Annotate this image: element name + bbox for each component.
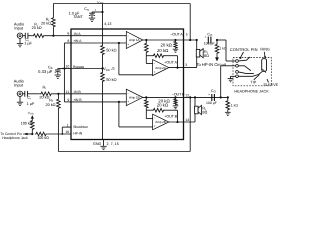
- node HP-IN junction: [61, 133, 63, 135]
- resistor 50k upper: [101, 45, 105, 55]
- svg-text:100 kΩ: 100 kΩ: [21, 122, 33, 126]
- jack arm 1: [238, 57, 249, 61]
- svg-text:+OUT A: +OUT A: [164, 61, 177, 65]
- svg-text:DD: DD: [30, 113, 34, 116]
- ground below Cs: [89, 18, 95, 21]
- pin 5 -OUTA: [186, 32, 188, 36]
- node 20k tap B: [145, 96, 147, 98]
- capacitor Co A: [208, 37, 211, 44]
- node feedback B at -OUTB: [189, 96, 191, 98]
- wire -INA to amp1A: [71, 35, 126, 37]
- label Ri A: [34, 23, 38, 28]
- wire divider top: [102, 29, 104, 45]
- label Ri B value: [39, 96, 49, 100]
- label Rf B value: [46, 103, 56, 107]
- svg-text:CO: CO: [207, 32, 213, 37]
- svg-text:TANT: TANT: [73, 15, 83, 19]
- node bypass rail at bypass pin: [63, 67, 65, 69]
- svg-text:1 µF: 1 µF: [27, 102, 35, 106]
- svg-text:8Ω: 8Ω: [204, 54, 209, 58]
- wire 20k B node to -in: [146, 110, 152, 118]
- label RL B: [202, 107, 207, 112]
- jack contact 1 (control): [236, 60, 239, 63]
- node divider mid at bypass: [101, 67, 103, 69]
- svg-text:+: +: [208, 92, 210, 96]
- svg-text:20 kΩ: 20 kΩ: [41, 21, 51, 25]
- svg-text:4,13: 4,13: [104, 22, 111, 26]
- svg-text:5: 5: [186, 32, 188, 36]
- pin 12 -OUTB: [185, 94, 189, 98]
- label Cs value: [69, 11, 81, 15]
- wire speaker B bottom: [194, 113, 196, 122]
- capacitor Ci B: [25, 91, 28, 97]
- svg-text:50 kΩ: 50 kΩ: [106, 48, 116, 53]
- pin 8 +IN A: [67, 39, 82, 43]
- label 20k A 2: [157, 48, 169, 53]
- svg-text:Amp 1B: Amp 1B: [129, 96, 139, 100]
- label 100k pullup: [21, 122, 33, 126]
- label CB: [48, 65, 53, 70]
- audio input jack A: [17, 33, 23, 38]
- node +INB jog: [118, 101, 120, 103]
- svg-text:14: 14: [185, 118, 189, 122]
- ground at input jack B: [17, 96, 23, 105]
- svg-text:1: 1: [67, 123, 69, 127]
- label Cs TANT: [73, 15, 83, 19]
- svg-text:100 µF: 100 µF: [204, 42, 215, 46]
- wire jack A to cap: [23, 35, 26, 37]
- svg-text:+OUT B: +OUT B: [164, 114, 177, 118]
- wire pullup to HP-IN row: [31, 131, 33, 135]
- pin 11 -IN B: [66, 90, 82, 94]
- capacitor Co B: [212, 94, 215, 101]
- resistor 20k B vertical: [145, 97, 149, 110]
- svg-text:Amp 2B: Amp 2B: [155, 120, 165, 124]
- wire 100k to HP-IN pin: [47, 133, 71, 135]
- svg-text:+: +: [154, 70, 156, 74]
- label Rf A value: [41, 21, 51, 25]
- svg-text:1 kΩ: 1 kΩ: [231, 103, 239, 107]
- label 50k lower: [106, 77, 116, 82]
- label +OUT A: [164, 61, 177, 65]
- jack arm 3: [238, 72, 253, 74]
- label GND pins 2 7 15: [107, 142, 119, 146]
- node feedback A drop: [176, 67, 178, 69]
- label -OUT A: [170, 33, 183, 37]
- svg-text:2, 7, 15: 2, 7, 15: [107, 142, 119, 146]
- resistor Rf channel A 20k: [52, 4, 56, 36]
- label Rf B: [49, 98, 53, 103]
- wire VDD to Cs: [92, 11, 103, 13]
- wire bypass pin to CB: [58, 68, 71, 70]
- op-amp Amp2A: [153, 60, 169, 76]
- power VDD arrow (shutdown pullup): [28, 111, 34, 120]
- wire speaker A top: [196, 40, 198, 49]
- wire 20k A node to -in: [146, 56, 152, 64]
- speaker RL B: [195, 105, 202, 114]
- svg-text:+: +: [94, 8, 96, 12]
- label 100k series: [37, 136, 49, 140]
- jack arm 4: [238, 71, 262, 76]
- speaker RL A: [196, 49, 203, 58]
- svg-text:DD: DD: [100, 2, 104, 5]
- svg-text:Ci: Ci: [27, 96, 31, 101]
- svg-text:20 kΩ: 20 kΩ: [157, 102, 169, 107]
- ground below 1k B: [225, 110, 231, 115]
- capacitor Cs: [89, 12, 95, 18]
- label Ci A: [25, 38, 29, 43]
- wire +OUTB: [169, 121, 195, 123]
- headphone plug symbol: [262, 59, 267, 73]
- pin 16 HP-IN: [65, 130, 82, 135]
- wire 20k B h to drop: [166, 110, 178, 122]
- svg-text:−OUT A: −OUT A: [170, 33, 183, 37]
- svg-text:20 kΩ: 20 kΩ: [39, 96, 49, 100]
- arrow to control pin: [24, 133, 32, 136]
- label To HP-IN Circuit: [196, 62, 226, 67]
- node Rf/Ri junction A: [52, 35, 54, 37]
- label Audio Input B: [14, 79, 25, 88]
- wire divider bottom: [102, 82, 104, 140]
- wire +OUTA: [169, 67, 197, 69]
- arrow sleeve: [267, 79, 269, 82]
- label 50k upper: [106, 48, 116, 53]
- wire -OUTA: [143, 39, 197, 41]
- label 8ohm A: [204, 54, 209, 58]
- resistor 20k A vertical: [145, 40, 149, 56]
- node shutdown junction: [31, 133, 33, 135]
- svg-text:−OUT B: −OUT B: [172, 93, 185, 97]
- node -OUTA gnd-res tap: [174, 39, 176, 41]
- label Ci B: [27, 96, 31, 101]
- wire speaker A bottom: [196, 57, 198, 68]
- jack contact 2 (ring): [236, 64, 239, 67]
- svg-text:1 µF: 1 µF: [24, 42, 32, 46]
- label Co A: [207, 32, 213, 37]
- svg-text:To HP-IN Circuit: To HP-IN Circuit: [196, 62, 226, 67]
- wire jack B to cap: [23, 93, 25, 95]
- resistor 50k lower: [101, 72, 105, 82]
- svg-text:9: 9: [67, 98, 69, 102]
- svg-text:CO: CO: [211, 89, 217, 94]
- wire Ri B to -INB pin: [52, 93, 71, 95]
- label Co B value: [206, 101, 217, 105]
- wire +INB from rail: [64, 101, 71, 103]
- ground at jack sleeve: [228, 79, 234, 82]
- node 1k A tap: [216, 39, 218, 41]
- wire sleeve to ground: [231, 76, 236, 78]
- label 20k B 1: [158, 98, 170, 103]
- resistor 20k B to gnd: [173, 97, 179, 108]
- svg-text:GND: GND: [93, 142, 102, 146]
- node +INA jog: [118, 42, 120, 44]
- wire Ri A to -INA pin: [45, 35, 71, 37]
- op-amp IC LM4863 package outline: [71, 29, 184, 140]
- jack contact 3 (tip sw): [236, 71, 239, 74]
- capacitor CB: [55, 69, 61, 75]
- wire -INB to amp1B: [71, 93, 126, 95]
- power VDD top: [97, 0, 103, 5]
- svg-text:CONTROL PIN: CONTROL PIN: [230, 47, 258, 52]
- svg-text:HP-IN: HP-IN: [73, 131, 83, 135]
- wire amp2A +in riser: [119, 43, 153, 75]
- label Ci B value: [27, 102, 35, 106]
- arrow control pin: [240, 52, 244, 59]
- arrow tip: [254, 75, 260, 80]
- label To Control Pin: [0, 132, 28, 140]
- wire divider mid: [102, 55, 104, 72]
- arrow to HP-IN circuit: [215, 54, 219, 61]
- wire amp2B +in riser: [119, 102, 153, 127]
- label VDD/2: [103, 67, 114, 72]
- label Cs plus: [94, 8, 96, 12]
- svg-text:/2: /2: [112, 67, 115, 71]
- svg-text:+: +: [127, 100, 129, 104]
- svg-text:TIP: TIP: [250, 80, 256, 84]
- wire bypass pin to divider: [71, 68, 103, 70]
- label Rf A: [46, 18, 50, 23]
- svg-text:-IN A: -IN A: [73, 32, 81, 36]
- svg-text:11: 11: [66, 90, 70, 94]
- wire cap to Ri B: [27, 93, 39, 95]
- wire cap to Ri A: [28, 35, 32, 37]
- arrow ring: [264, 52, 266, 59]
- resistor Ri B 20k: [40, 92, 53, 96]
- node -OUTB gnd-res tap: [174, 96, 176, 98]
- wire feedback A right drop: [189, 4, 191, 41]
- wire shutdown pin stub: [62, 127, 71, 134]
- wire feedback A top rail: [53, 3, 190, 5]
- label TIP: [250, 80, 256, 84]
- resistor Ri A 20k: [32, 34, 45, 38]
- svg-text:10: 10: [65, 65, 69, 69]
- svg-text:Ri: Ri: [43, 85, 47, 90]
- node 20k tap A: [145, 39, 147, 41]
- label 1k B: [231, 103, 239, 107]
- label RING: [260, 48, 270, 52]
- svg-text:Input: Input: [14, 82, 24, 87]
- audio input jack B: [17, 91, 23, 96]
- wire feedback B right riser: [189, 97, 191, 151]
- svg-text:+: +: [61, 66, 63, 70]
- node VDD cap junction: [101, 11, 103, 13]
- wire +INA to bypass rail: [64, 42, 71, 44]
- node speaker B top: [194, 96, 196, 98]
- label SLEEVE: [263, 83, 278, 87]
- jack arm 2: [238, 66, 250, 71]
- wire B to jack: [221, 66, 236, 98]
- wire 20k A h to drop: [166, 56, 178, 68]
- svg-text:+: +: [127, 42, 129, 46]
- jack contact 4 (sleeve): [236, 75, 239, 78]
- svg-text:Amp 1A: Amp 1A: [129, 38, 140, 42]
- label Ri A value: [32, 26, 42, 30]
- label RL A: [204, 50, 209, 55]
- wire feedback B bottom rail: [58, 151, 190, 153]
- label Ci A value: [24, 42, 32, 46]
- pin 3 +OUTA: [185, 63, 187, 67]
- resistor 20k A to gnd: [173, 40, 179, 52]
- label CB plus: [61, 66, 63, 70]
- op-amp Amp2B: [153, 114, 169, 130]
- resistor 20k B horizontal: [146, 108, 165, 112]
- ground at input jack A: [17, 38, 23, 47]
- wire speaker B top: [194, 97, 196, 106]
- capacitor Ci A: [25, 33, 28, 39]
- op-amp Amp1B: [126, 89, 143, 105]
- label Ri B: [43, 85, 47, 90]
- label -OUT B: [172, 93, 185, 97]
- svg-text:20 kΩ: 20 kΩ: [46, 103, 56, 107]
- svg-text:20 kΩ: 20 kΩ: [32, 26, 42, 30]
- op-amp Amp1A: [126, 32, 143, 49]
- wire bypass rail vertical: [63, 43, 65, 102]
- svg-text:6: 6: [67, 32, 69, 36]
- label 8ohm B: [202, 111, 207, 115]
- label Co B: [211, 89, 217, 94]
- svg-text:3: 3: [185, 63, 187, 67]
- label Co A value: [204, 42, 215, 46]
- svg-text:−: −: [127, 34, 129, 38]
- svg-text:Input: Input: [14, 25, 24, 30]
- label CONTROL PIN: [230, 47, 258, 52]
- svg-text:Amp 2A: Amp 2A: [155, 66, 166, 70]
- svg-text:100 kΩ: 100 kΩ: [37, 136, 49, 140]
- svg-text:100 µF: 100 µF: [206, 101, 217, 105]
- pin 14 +OUTB: [185, 118, 189, 122]
- resistor 1k B: [226, 97, 230, 110]
- pin 9 +IN B: [67, 98, 82, 102]
- label 20k B 2: [157, 102, 169, 107]
- svg-text:50 kΩ: 50 kΩ: [106, 77, 116, 82]
- resistor 20k A horizontal: [146, 54, 165, 58]
- label Cs: [84, 7, 89, 12]
- svg-text:20 kΩ: 20 kΩ: [157, 48, 169, 53]
- svg-text:CS: CS: [84, 7, 89, 12]
- label +OUT B: [164, 114, 177, 118]
- label CB value: [38, 69, 53, 74]
- node Rf/Ri junction B: [57, 93, 59, 95]
- resistor Rf channel B 20k: [57, 94, 61, 152]
- svg-text:SLEEVE: SLEEVE: [263, 83, 278, 87]
- ground GND pins: [100, 140, 106, 150]
- svg-text:8Ω: 8Ω: [202, 111, 207, 115]
- wire +INA to amp1A: [71, 42, 126, 44]
- label 1k A: [219, 47, 227, 51]
- label GND: [93, 142, 102, 146]
- label Co A plus: [205, 35, 207, 39]
- node 1k B tap: [227, 96, 229, 98]
- ground below CB: [55, 75, 61, 78]
- resistor 100k series: [35, 132, 48, 136]
- wire A to jack: [217, 40, 236, 61]
- label 20k A 1: [161, 43, 173, 48]
- svg-text:RING: RING: [260, 48, 270, 52]
- node speaker A top: [196, 39, 198, 41]
- node feedback B drop: [176, 121, 178, 123]
- svg-text:+: +: [154, 124, 156, 128]
- headphone jack dashed box: [233, 58, 271, 86]
- svg-text:+: +: [205, 35, 207, 39]
- wire +INB to amp1B: [71, 101, 126, 103]
- pin 6 -IN A: [67, 32, 81, 36]
- svg-text:Shutdown: Shutdown: [73, 125, 88, 129]
- node B jack riser: [220, 96, 222, 98]
- label HEADPHONE JACK: [234, 90, 269, 94]
- svg-text:0.33 µF: 0.33 µF: [38, 69, 53, 74]
- pin 4,13 VDD: [104, 22, 111, 26]
- label Audio Input A: [14, 22, 25, 31]
- svg-text:HEADPHONE JACK: HEADPHONE JACK: [234, 90, 269, 94]
- svg-text:12: 12: [185, 94, 189, 98]
- resistor 1k A: [215, 40, 219, 54]
- svg-text:Headphone Jack: Headphone Jack: [2, 136, 28, 140]
- resistor 100k pullup: [30, 120, 34, 131]
- pin 10 Bypass: [65, 65, 84, 69]
- wire VDD down: [102, 4, 104, 29]
- svg-text:8: 8: [67, 39, 69, 43]
- svg-text:16: 16: [65, 130, 69, 134]
- svg-text:VDD: VDD: [103, 67, 110, 72]
- label Co B plus: [208, 92, 210, 96]
- wire -OUTB: [143, 96, 228, 98]
- pin 1 Shutdown: [67, 123, 88, 129]
- node feedback A at -OUTA: [189, 39, 191, 41]
